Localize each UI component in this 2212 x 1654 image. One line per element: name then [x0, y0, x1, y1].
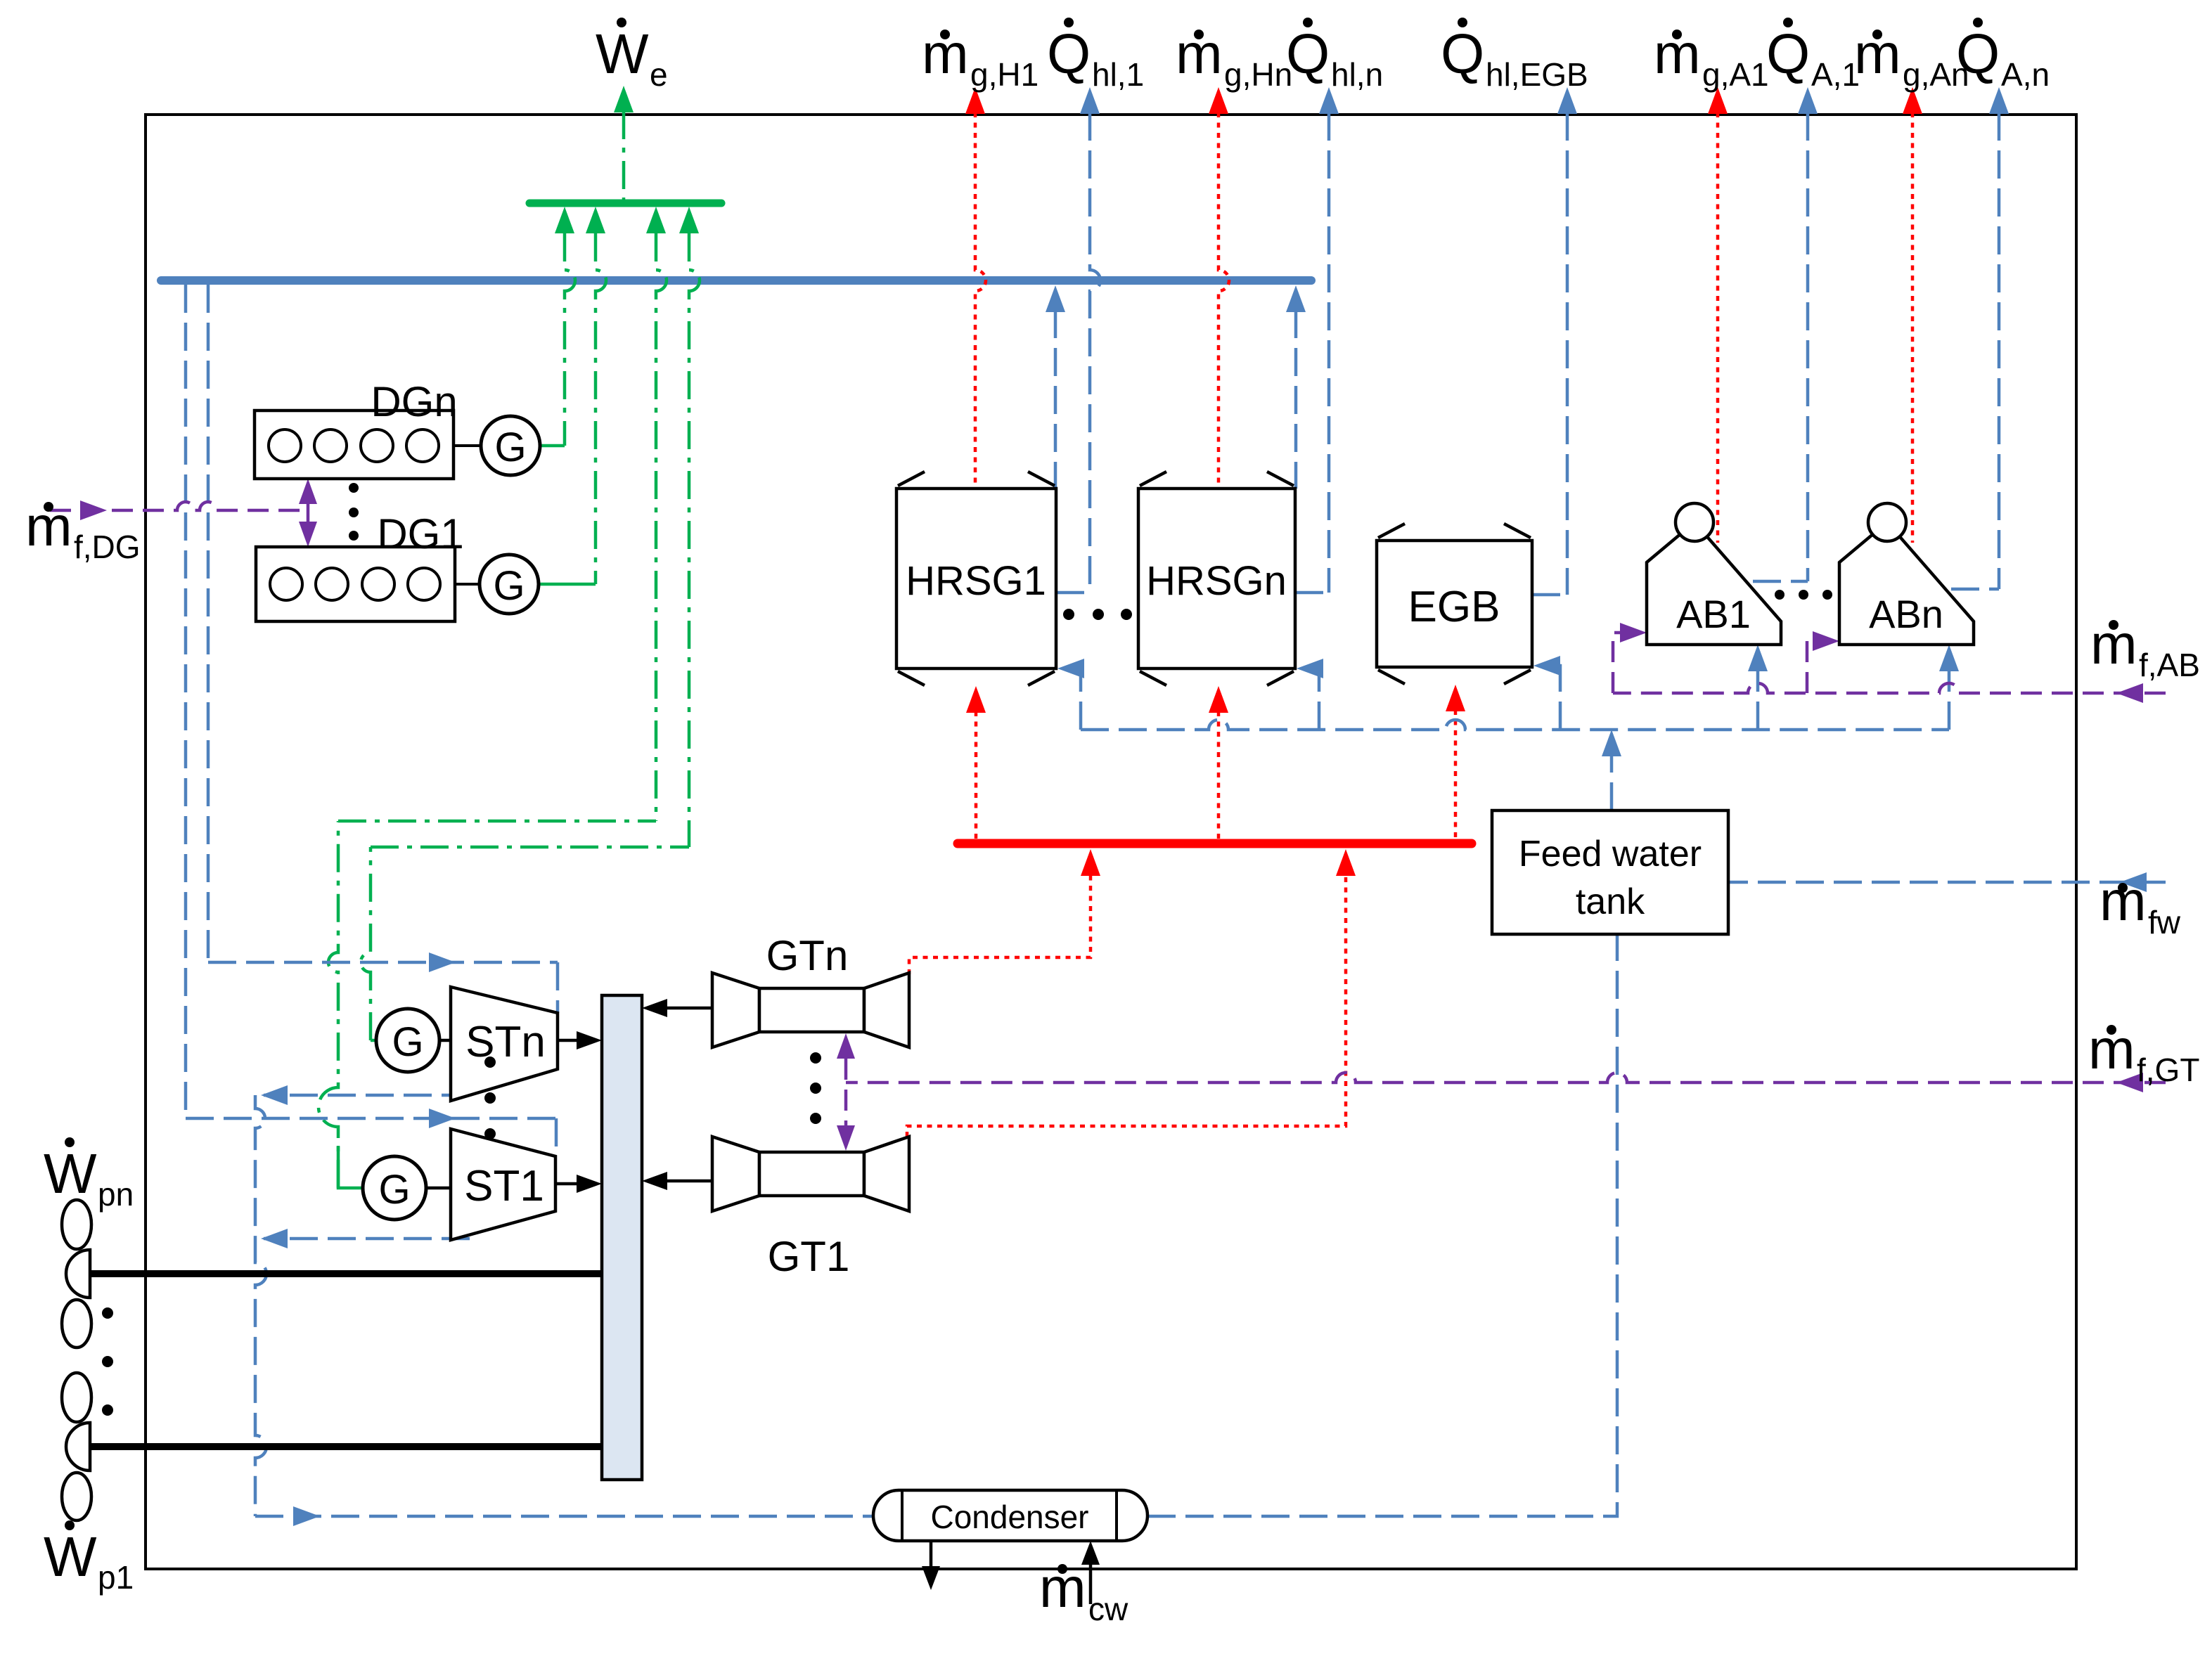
svg-text:G: G	[493, 563, 525, 609]
svg-text:Condenser: Condenser	[930, 1499, 1088, 1535]
svg-text:Q: Q	[1956, 22, 2000, 85]
svg-text:Q: Q	[1047, 22, 1091, 85]
svg-text:A,1: A,1	[1811, 56, 1860, 93]
svg-text:HRSGn: HRSGn	[1146, 558, 1287, 604]
svg-text:G: G	[494, 425, 526, 470]
svg-text:f,DG: f,DG	[74, 529, 141, 565]
svg-text:W: W	[596, 22, 649, 85]
svg-text:ABn: ABn	[1869, 592, 1943, 636]
svg-text:Feed water: Feed water	[1519, 834, 1702, 874]
svg-text:hl,n: hl,n	[1331, 56, 1383, 93]
svg-text:GT1: GT1	[768, 1233, 850, 1280]
svg-text:GTn: GTn	[766, 932, 849, 979]
svg-text:EGB: EGB	[1408, 583, 1500, 631]
svg-text:cw: cw	[1088, 1591, 1128, 1627]
svg-text:f,AB: f,AB	[2139, 647, 2200, 683]
svg-text:AB1: AB1	[1676, 592, 1751, 636]
svg-text:HRSG1: HRSG1	[906, 558, 1046, 604]
svg-text:tank: tank	[1576, 881, 1645, 922]
svg-text:g,A1: g,A1	[1702, 56, 1769, 93]
svg-text:pn: pn	[98, 1176, 134, 1213]
svg-text:g,Hn: g,Hn	[1224, 56, 1292, 93]
svg-text:W: W	[44, 1525, 97, 1588]
svg-text:fw: fw	[2148, 904, 2181, 941]
svg-text:Q: Q	[1441, 22, 1484, 85]
svg-text:DG1: DG1	[377, 510, 463, 557]
svg-text:W: W	[44, 1142, 97, 1205]
svg-text:Q: Q	[1286, 22, 1330, 85]
svg-text:e: e	[650, 56, 668, 93]
svg-text:m: m	[2100, 870, 2147, 932]
svg-text:A,n: A,n	[2001, 56, 2050, 93]
svg-text:ST1: ST1	[464, 1162, 544, 1210]
svg-text:hl,EGB: hl,EGB	[1486, 56, 1588, 93]
svg-text:f,GT: f,GT	[2137, 1052, 2199, 1088]
svg-text:DGn: DGn	[371, 378, 457, 425]
svg-text:hl,1: hl,1	[1092, 56, 1144, 93]
svg-text:G: G	[378, 1167, 410, 1213]
svg-text:STn: STn	[465, 1018, 546, 1066]
svg-text:p1: p1	[98, 1559, 134, 1596]
svg-text:g,H1: g,H1	[970, 56, 1039, 93]
svg-text:Q: Q	[1766, 22, 1810, 85]
svg-text:G: G	[392, 1019, 423, 1065]
